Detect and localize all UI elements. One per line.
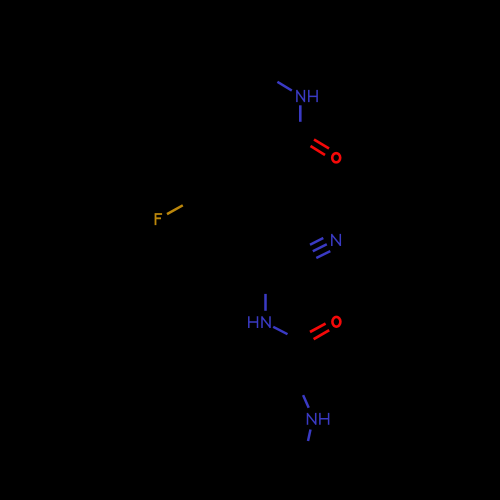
wire: amide N to carbonyl C half-bond (mid): [273, 327, 287, 334]
wire: C-F half-bond (gold): [167, 205, 183, 214]
node N nitrile label "N": [332, 234, 341, 246]
node O carbonyl lower label "O": [332, 317, 340, 327]
wire: C=O double bond lower half (red): [310, 324, 329, 340]
wire: methyl C to amide N half-bond (top): [277, 82, 291, 91]
wire: nitrile C#N triple bond halves (blue, three lines): [310, 238, 330, 258]
wire: C=O double bond upper half (red): [311, 140, 330, 156]
wire: CH2 to amine N half-bond: [303, 395, 309, 408]
node N-H amide top label "NH": [297, 90, 318, 102]
node F fluorine label "F": [155, 213, 163, 225]
wire: amine N to methyl C half-bond (bottom): [308, 430, 311, 442]
node H-N amide middle label "HN": [249, 316, 270, 328]
wire: stereocenter C to amide N half-bond (vertical, mid): [264, 294, 267, 311]
node O carbonyl top label "O": [332, 153, 340, 162]
node N-H amine bottom label "NH": [307, 413, 328, 425]
wire: amide N to carbonyl C half-bond (vertical, top): [299, 105, 302, 122]
